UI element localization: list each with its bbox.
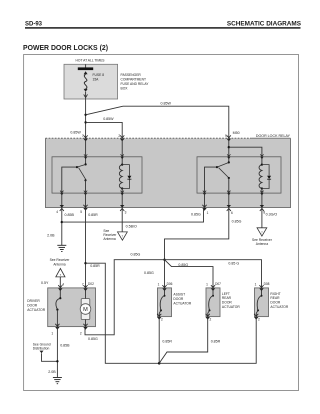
node: coil A top (121, 164, 123, 166)
svg-text:DOOR: DOOR (173, 297, 184, 301)
fuse box exit chevron (84, 94, 88, 97)
right rear exit terminal (254, 314, 258, 320)
label: See Receiver Antenna (driver feed) (50, 258, 71, 266)
node: tap to relay pin 2 (84, 121, 86, 123)
wire: G-chain to left rear actuator (165, 260, 214, 291)
assist switch lower lead (159, 310, 161, 316)
driver motor upper lead (85, 290, 87, 298)
pin 2 entry terminal (120, 135, 124, 141)
assist entry terminal (162, 285, 166, 287)
internal box A bottom terminals (60, 191, 124, 196)
svg-text:1: 1 (158, 283, 160, 287)
internal box B top terminals (227, 154, 264, 159)
svg-text:D07: D07 (215, 282, 221, 286)
fuse F8 arrow top (84, 71, 88, 74)
internal box A top terminals (84, 154, 124, 159)
svg-text:D06: D06 (167, 282, 173, 286)
svg-text:0.5Y: 0.5Y (41, 281, 49, 285)
node: return rail junction (158, 362, 161, 365)
right rear door actuator box (255, 288, 269, 317)
pin 7 entry terminal (83, 135, 87, 141)
node: right rear switch upper contact (261, 295, 263, 297)
node: left rear switch lower contact (209, 309, 211, 311)
relay contact-B internal box (197, 157, 281, 193)
svg-text:ACTUATOR: ACTUATOR (222, 305, 240, 309)
svg-text:PASSENGER: PASSENGER (121, 73, 142, 77)
wire: diagonal riser to M50 branch (86, 106, 123, 115)
left rear door actuator box (206, 288, 220, 317)
svg-text:2: 2 (161, 318, 163, 322)
assist switch upper lead (164, 290, 166, 295)
node: contact B pivot (216, 166, 218, 168)
assist door actuator box (158, 288, 172, 317)
svg-text:FUSE AND RELAY: FUSE AND RELAY (121, 82, 150, 86)
wire: pin 2 to coil A (121, 138, 123, 164)
right rear entry terminal (259, 285, 263, 287)
driver door actuator box (48, 288, 96, 327)
label: LEFT REAR DOOR ACTUATOR (222, 292, 240, 309)
left rear switch upper lead (212, 290, 214, 295)
wire: T3 to driver actuator (59, 277, 61, 290)
node: coil B top (261, 164, 263, 166)
node: coil A bottom (121, 187, 123, 189)
wire: assist return drop (158, 317, 160, 364)
wire: ground distribution tap (42, 353, 58, 361)
contact B arm to upper (217, 163, 228, 168)
svg-text:Antenna: Antenna (256, 242, 268, 246)
svg-text:BOX: BOX (121, 86, 129, 90)
svg-text:1: 1 (207, 211, 209, 215)
relay bottom pin numbers 4 5 3 1 6 8 (56, 210, 265, 215)
svg-text:0.85W: 0.85W (70, 131, 81, 135)
diode D-B branch wires (262, 165, 269, 176)
svg-text:0.85R: 0.85R (211, 339, 221, 343)
node: driver switch lower contact (56, 309, 58, 311)
driver switch lower lead (56, 310, 58, 327)
pin 9 entry terminal (227, 135, 231, 141)
svg-text:1: 1 (206, 283, 208, 287)
contact B arm to lower (219, 168, 229, 178)
relay coil A (119, 164, 122, 188)
svg-text:0.85W: 0.85W (103, 117, 114, 121)
svg-text:9: 9 (225, 134, 227, 138)
fuse F8 supply stub (85, 64, 87, 67)
left rear switch lower lead (208, 310, 210, 316)
svg-text:2: 2 (258, 318, 260, 322)
svg-text:LEFT: LEFT (222, 292, 230, 296)
fuse F8 arrow bottom (84, 89, 88, 92)
label: See Receiver Antenna (T2) (252, 238, 273, 246)
svg-text:5: 5 (80, 210, 82, 214)
svg-text:0.85G: 0.85G (191, 212, 201, 216)
node: driver switch upper contact (59, 297, 61, 299)
svg-text:HOT AT ALL TIMES: HOT AT ALL TIMES (76, 59, 106, 63)
svg-text:2.0B: 2.0B (47, 234, 55, 238)
node: left rear switch upper contact (212, 295, 214, 297)
fuse F8 value label (93, 73, 105, 81)
svg-text:4: 4 (56, 210, 58, 214)
svg-text:7: 7 (82, 283, 84, 287)
node: contact A pivot (76, 166, 78, 168)
label: PASSENGER COMPARTMENT FUSE AND RELAY BOX (121, 73, 150, 90)
driver actuator bottom pin numbers (51, 331, 81, 335)
wire: pin 3 to receiver antenna ref (121, 208, 123, 232)
svg-text:DOOR: DOOR (27, 304, 38, 308)
wire: branch to relay pin 2 (86, 122, 123, 139)
svg-text:0.85W: 0.85W (161, 102, 172, 106)
assist exit terminal (157, 314, 161, 320)
door lock relay box (gray body) (46, 138, 291, 207)
svg-text:0.85 G: 0.85 G (228, 261, 239, 265)
node: contact B lower (228, 177, 230, 179)
label: ASSIST DOOR ACTUATOR (173, 293, 191, 306)
label: RIGHT REAR DOOR ACTUATOR (270, 292, 288, 309)
svg-text:DOOR: DOOR (270, 301, 281, 305)
svg-text:0.85R: 0.85R (88, 213, 98, 217)
svg-text:DRIVER: DRIVER (27, 299, 40, 303)
wire: G-chain to right rear actuator (165, 260, 262, 291)
svg-text:0.85R: 0.85R (90, 264, 100, 268)
node: assist switch upper contact (164, 295, 166, 297)
svg-text:Distribution: Distribution (33, 347, 50, 351)
off-page triangle T2 (receiver antenna) (257, 228, 267, 236)
svg-text:3: 3 (125, 210, 127, 214)
svg-text:0.85B: 0.85B (65, 213, 75, 217)
svg-text:ACTUATOR: ACTUATOR (173, 301, 191, 305)
wire: left rear return (159, 317, 208, 364)
wire: R-chain rail to rear actuators (86, 263, 159, 363)
svg-text:SCHEMATIC DIAGRAMS: SCHEMATIC DIAGRAMS (227, 21, 302, 28)
svg-text:15A: 15A (93, 77, 100, 81)
driver actuator entry terminals (58, 285, 88, 291)
node: driver ground junction (56, 360, 58, 362)
door lock relay dashed top edge (46, 137, 253, 139)
driver lock switch upper lead (59, 290, 61, 298)
wire: long 0.85W run to pin 9 (123, 106, 229, 139)
ground G2 (53, 378, 62, 384)
wire: contact B common from pin 1 (205, 167, 218, 193)
motor M rotor (80, 304, 91, 315)
svg-text:0.85B: 0.85B (60, 343, 70, 347)
wire: pin 9 tap to coil B (229, 147, 262, 164)
right rear switch lower lead (256, 310, 258, 316)
header rule (25, 27, 301, 29)
svg-text:POWER DOOR LOCKS (2): POWER DOOR LOCKS (2) (23, 45, 108, 52)
svg-text:0.85G: 0.85G (88, 337, 98, 341)
wire: contact B lower to pin 6 (228, 178, 230, 193)
left rear entry terminal (211, 285, 215, 287)
off-page triangle T3 (receiver antenna, driver feed) (56, 269, 65, 277)
svg-text:4: 4 (62, 283, 64, 287)
svg-text:2.0B: 2.0B (48, 370, 56, 374)
relay contact-A internal box (52, 157, 142, 193)
node: contact B upper (228, 161, 230, 163)
node: right rear switch lower contact (257, 309, 259, 311)
wire: pin 9 to fixed contact B (228, 138, 230, 162)
wire: pin 8 to receiver antenna ref (261, 208, 263, 228)
svg-text:SD-93: SD-93 (25, 21, 43, 27)
wire: contact A lower to pin 5 (85, 180, 87, 193)
schematic frame (24, 55, 299, 391)
svg-text:0.85G: 0.85G (131, 253, 141, 257)
svg-text:M: M (83, 307, 88, 313)
relay bottom exit terminals (60, 205, 265, 211)
node: coil B bottom (261, 187, 263, 189)
svg-text:0.85G: 0.85G (178, 263, 188, 267)
svg-text:REAR: REAR (222, 296, 232, 300)
driver switch arm (56, 298, 60, 309)
left rear exit terminal (206, 314, 210, 320)
svg-text:2: 2 (210, 318, 212, 322)
right rear switch upper lead (261, 290, 263, 295)
fuse F8 element (84, 74, 87, 89)
svg-text:DOOR: DOOR (222, 301, 233, 305)
driver actuator exit terminals (55, 324, 87, 330)
svg-text:FUSE 8: FUSE 8 (93, 73, 105, 77)
wire: coil B bottom to pin 8 (261, 189, 263, 208)
diode D-A (127, 176, 131, 180)
wire: pin 6 G-chain riser (165, 208, 229, 291)
ground G1 (57, 245, 66, 251)
svg-text:1: 1 (51, 331, 53, 335)
svg-text:COMPARTMENT: COMPARTMENT (121, 78, 147, 82)
svg-text:Antenna: Antenna (103, 237, 115, 241)
svg-text:Antenna: Antenna (53, 262, 65, 266)
motor M housing (81, 299, 90, 320)
svg-text:ACTUATOR: ACTUATOR (27, 308, 45, 312)
svg-text:REAR: REAR (270, 296, 280, 300)
left rear switch arm (209, 296, 213, 311)
wire: right rear return (159, 317, 256, 364)
passenger compartment fuse box (64, 64, 118, 99)
wire: coil A bottom to pin 3 (121, 189, 123, 208)
svg-text:1: 1 (255, 283, 257, 287)
fuse F8 bus bar (78, 67, 93, 70)
svg-text:D02: D02 (88, 282, 94, 286)
contact A arm to lower (79, 168, 86, 180)
svg-text:2: 2 (118, 134, 120, 138)
svg-text:0.5B/O: 0.5B/O (126, 225, 137, 229)
node: pin 9 coil tap (228, 146, 230, 148)
assist switch arm (160, 296, 164, 311)
right rear switch arm (257, 296, 261, 311)
svg-text:7: 7 (82, 134, 84, 138)
svg-text:ACTUATOR: ACTUATOR (270, 305, 288, 309)
wires: contact legs internal box A to relay bottom edge (62, 193, 229, 208)
relay coil B (259, 164, 262, 188)
node: contact A upper (85, 163, 87, 165)
wire: fuse output 0.85W down to relay pin 7 (85, 92, 87, 140)
node: ground tie (61, 221, 63, 223)
svg-text:2: 2 (80, 331, 82, 335)
label: See Ground Distribution (33, 343, 51, 351)
label: DRIVER DOOR ACTUATOR (27, 299, 45, 312)
node: G-chain junction (163, 259, 165, 261)
svg-text:DOOR LOCK RELAY: DOOR LOCK RELAY (256, 134, 291, 138)
off-page triangle T1 (receiver antenna) (118, 232, 128, 240)
wire: pin 4 ground drop (61, 208, 63, 245)
diode D-A branch wires (122, 165, 129, 176)
door lock relay solid borders (46, 138, 291, 207)
svg-text:6: 6 (231, 211, 233, 215)
driver motor lower lead (85, 320, 87, 327)
svg-text:0.3G/O: 0.3G/O (266, 212, 278, 216)
wire: G-chain to driver motor (85, 260, 165, 335)
wire: pin 7 to fixed contact (85, 138, 87, 164)
svg-text:M50: M50 (233, 131, 240, 135)
svg-text:0.85G: 0.85G (144, 271, 154, 275)
svg-text:ASSIST: ASSIST (173, 293, 185, 297)
node: assist switch lower contact (160, 309, 162, 311)
node: tap to relay pin 9 (84, 114, 86, 116)
svg-text:RIGHT: RIGHT (270, 292, 280, 296)
label: See Receiver Antenna (T1) (103, 229, 117, 241)
svg-text:0.85G: 0.85G (232, 219, 242, 223)
diode D-B (267, 176, 271, 180)
wire: ground tie to pin 1 (62, 208, 204, 223)
internal box B bottom terminals (203, 191, 264, 196)
node: contact A lower (84, 179, 86, 181)
svg-text:0.85R: 0.85R (162, 339, 172, 343)
svg-text:D08: D08 (264, 282, 270, 286)
wire: contact A common from pin 4 (62, 167, 77, 193)
node: R-chain junction (84, 262, 86, 264)
ground distribution arrow (40, 351, 44, 354)
wire: pin 5 R-chain to driver actuator (85, 208, 87, 291)
wire: driver switch to ground (56, 327, 58, 378)
contact A arm to upper (77, 165, 85, 168)
